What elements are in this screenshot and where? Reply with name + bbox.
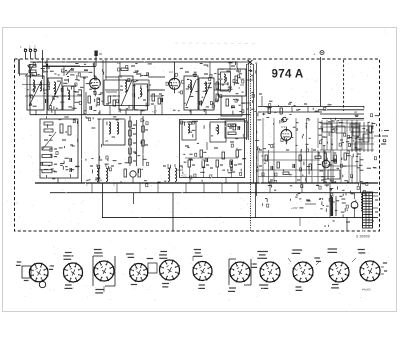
svg-text:S 10/009: S 10/009	[356, 235, 370, 239]
svg-text:96: 96	[99, 52, 103, 56]
svg-text:3.2: 3.2	[169, 70, 173, 74]
svg-text:+17: +17	[152, 110, 157, 114]
svg-text:10 10: 10 10	[176, 168, 183, 172]
svg-text:3.3: 3.3	[281, 125, 285, 129]
svg-text:+: +	[381, 129, 383, 133]
svg-text:C: C	[86, 183, 88, 187]
svg-text:+: +	[314, 53, 316, 57]
svg-text:+CC: +CC	[181, 174, 187, 178]
svg-text:2B: 2B	[105, 139, 109, 143]
svg-text:#4x008: #4x008	[362, 288, 371, 292]
svg-text:C: C	[113, 183, 115, 187]
svg-text:42: 42	[354, 110, 358, 114]
svg-text:974 A: 974 A	[272, 69, 304, 81]
svg-text:+OW: +OW	[291, 206, 298, 210]
